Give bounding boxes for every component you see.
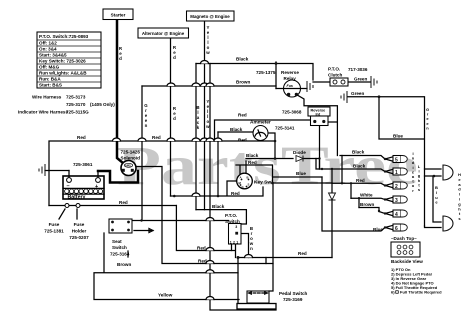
svg-text:Blue: Blue — [393, 134, 403, 139]
svg-text:P.T.O. Switch:725-0893: P.T.O. Switch:725-0893 — [39, 34, 89, 39]
svg-text:S: S — [248, 183, 250, 187]
svg-text:Off: 1&2: Off: 1&2 — [39, 41, 57, 46]
svg-text:Magneto @ Engine: Magneto @ Engine — [190, 14, 230, 19]
svg-text:White: White — [360, 193, 373, 198]
svg-text:Start: B&S: Start: B&S — [39, 83, 62, 88]
svg-text:Black: Black — [212, 204, 225, 209]
svg-text:725-3068: 725-3068 — [282, 110, 302, 115]
svg-text:Fuse: Fuse — [49, 222, 60, 227]
svg-text:On: 3&4: On: 3&4 — [39, 47, 57, 52]
svg-text:Black: Black — [230, 127, 243, 132]
svg-text:1: 1 — [395, 170, 398, 176]
svg-text:Red: Red — [119, 200, 128, 205]
svg-text:Run: B&A: Run: B&A — [39, 77, 61, 82]
svg-text:Start: 3&4&5: Start: 3&4&5 — [39, 53, 67, 58]
svg-text:725-3141: 725-3141 — [275, 126, 295, 131]
svg-text:Red: Red — [248, 160, 257, 165]
svg-text:Red: Red — [238, 113, 247, 118]
svg-text:Relay: Relay — [284, 76, 297, 81]
svg-text:P.T.O.: P.T.O. — [328, 67, 340, 72]
svg-text:Red: Red — [77, 135, 86, 140]
svg-text:Starter: Starter — [111, 13, 126, 18]
svg-text:Brown: Brown — [117, 262, 131, 267]
svg-text:725-3173: 725-3173 — [66, 95, 86, 100]
svg-text:Wire Harness: Wire Harness — [32, 95, 62, 100]
svg-text:3: 3 — [395, 198, 398, 204]
svg-text:5: 5 — [395, 158, 398, 164]
svg-text:Blue: Blue — [373, 227, 383, 232]
svg-text:6: 6 — [395, 226, 398, 232]
svg-text:(1405 Only): (1405 Only) — [90, 102, 115, 107]
svg-text:Pedal Switch: Pedal Switch — [279, 291, 308, 296]
svg-text:725-3169: 725-3169 — [283, 297, 303, 302]
svg-text:Seat: Seat — [112, 239, 122, 244]
svg-text:725-3115G: 725-3115G — [66, 110, 89, 115]
svg-text:Black: Black — [236, 57, 249, 62]
svg-text:Fuse: Fuse — [74, 222, 85, 227]
svg-text:Holder: Holder — [72, 229, 87, 234]
svg-text:Solenoid: Solenoid — [121, 156, 141, 161]
svg-text:Ammeter: Ammeter — [250, 120, 271, 126]
svg-text:AMS: AMS — [125, 164, 131, 168]
svg-text:Indicator Wire Harness: Indicator Wire Harness — [18, 110, 68, 115]
svg-text:Red: Red — [197, 246, 206, 251]
svg-text:Red: Red — [231, 191, 240, 196]
svg-text:725-1375: 725-1375 — [256, 70, 276, 75]
svg-text:725-3061: 725-3061 — [73, 162, 93, 167]
svg-text:Red: Red — [356, 178, 365, 183]
svg-text:Black: Black — [246, 153, 259, 158]
svg-text:Reverse: Reverse — [281, 70, 299, 75]
svg-text:Battery: Battery — [68, 194, 86, 200]
svg-text:G: G — [242, 185, 244, 189]
svg-text:Key Sw: Key Sw — [254, 180, 271, 186]
svg-text:Key Switch: 725-3026: Key Switch: 725-3026 — [39, 59, 86, 64]
svg-text:2: 2 — [233, 241, 235, 245]
svg-text:4: 4 — [395, 212, 398, 218]
svg-text:Red: Red — [152, 135, 161, 140]
svg-text:Run w/Lights: A&L&B: Run w/Lights: A&L&B — [39, 71, 87, 76]
svg-text:Backside View: Backside View — [391, 259, 423, 264]
svg-text:Fus: Fus — [287, 84, 293, 88]
svg-text:Green: Green — [351, 91, 364, 96]
svg-text:2: 2 — [395, 184, 398, 190]
svg-text:Red: Red — [298, 251, 307, 256]
svg-text:Off: M&G: Off: M&G — [39, 65, 60, 70]
svg-text:Switch: Switch — [112, 245, 127, 250]
svg-text:725-0207: 725-0207 — [69, 235, 89, 240]
svg-text:3: 3 — [235, 225, 237, 229]
svg-text:Brown: Brown — [360, 202, 374, 207]
svg-text:Diode: Diode — [293, 150, 306, 155]
svg-text:Alternator @ Engine: Alternator @ Engine — [142, 31, 185, 36]
svg-text:Brown: Brown — [236, 80, 250, 85]
svg-text:717-3036: 717-3036 — [348, 67, 368, 72]
svg-text:Clutch: Clutch — [328, 73, 342, 78]
svg-text:Red: Red — [198, 259, 207, 264]
svg-text:Red: Red — [238, 138, 247, 143]
svg-text:P.T.O.: P.T.O. — [225, 213, 237, 218]
svg-text:Full Throttle Required: Full Throttle Required — [400, 290, 442, 295]
svg-text:1: 1 — [230, 241, 232, 245]
svg-text:Black: Black — [352, 150, 365, 155]
svg-text:Yellow: Yellow — [158, 293, 173, 298]
svg-text:725-3170: 725-3170 — [66, 102, 86, 107]
svg-text:–Dash Top–: –Dash Top– — [391, 236, 417, 241]
svg-text:725-1381: 725-1381 — [44, 229, 64, 234]
svg-text:Blue: Blue — [296, 171, 306, 176]
svg-text:1: 1 — [236, 241, 238, 245]
svg-text:725-1426: 725-1426 — [121, 150, 141, 155]
svg-text:Black: Black — [353, 164, 366, 169]
svg-text:Green: Green — [354, 77, 367, 82]
svg-text:725-3164: 725-3164 — [110, 252, 130, 257]
